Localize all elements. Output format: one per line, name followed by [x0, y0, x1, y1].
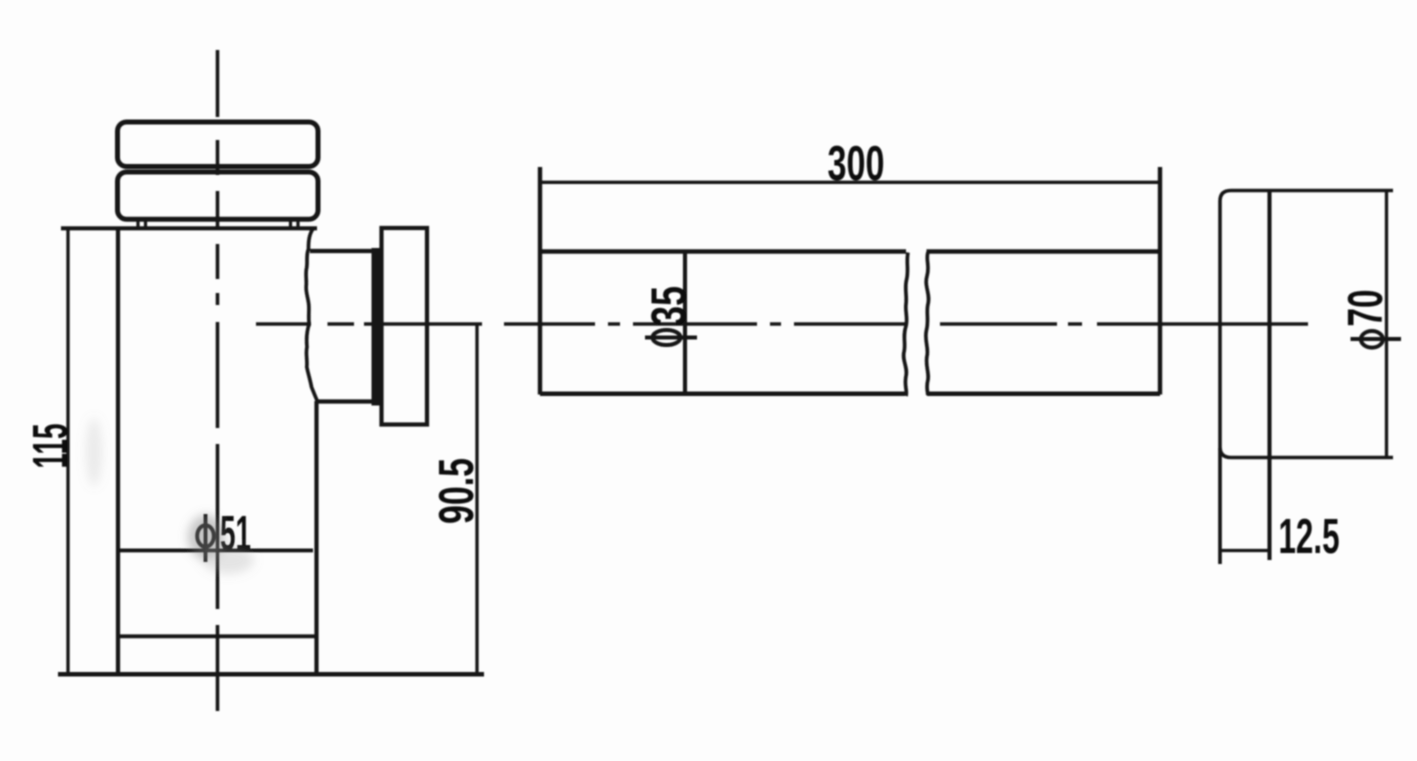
- tube joint line: [683, 252, 687, 394]
- tube right end and extension: [1158, 167, 1162, 395]
- dimension line 90.5: [475, 324, 478, 674]
- escutcheon left extension line: [1218, 448, 1222, 564]
- spout neck top edge: [310, 249, 372, 253]
- spout horizontal centerline left view: [256, 322, 482, 326]
- handle knob lower cap: [118, 172, 319, 219]
- right bonnet foot: [291, 221, 299, 228]
- escutcheon outline top bottom and rounded left edge: [1220, 191, 1393, 458]
- spout tube centerline left part: [504, 322, 906, 326]
- spout tube centerline right part: [940, 322, 1308, 326]
- svg-text:12.5: 12.5: [1279, 510, 1340, 564]
- tube bottom edge left part: [540, 391, 905, 396]
- svg-text:35: 35: [643, 286, 697, 326]
- spout neck bottom edge: [316, 399, 372, 403]
- tube left end and extension: [538, 167, 542, 395]
- seat line inside body: [118, 548, 313, 552]
- tube bottom edge right part: [927, 391, 1160, 396]
- body lower right edge: [314, 401, 318, 674]
- svg-text:70: 70: [1339, 290, 1393, 327]
- wall flange side view: [382, 228, 428, 425]
- cast transition wavy edge: [306, 228, 317, 401]
- svg-text:300: 300: [828, 137, 885, 191]
- left bonnet foot: [138, 221, 146, 228]
- svg-text:90.5: 90.5: [430, 458, 484, 524]
- tube break line left: [904, 253, 908, 397]
- body top edge with 115 extension: [61, 226, 317, 230]
- dimension line 115: [66, 228, 69, 674]
- tube break line right: [926, 252, 929, 396]
- svg-text:115: 115: [24, 424, 78, 469]
- tube top edge left part: [540, 249, 906, 254]
- vertical centerline of valve body: [216, 50, 220, 711]
- scan smudge near phi51 label: [86, 418, 254, 574]
- dimension line 12.5: [1220, 549, 1270, 552]
- body bottom edge with extensions: [58, 672, 484, 677]
- neck-flange joint bar: [372, 248, 382, 406]
- dimension line 300: [540, 181, 1160, 184]
- handle knob top cap: [118, 122, 319, 167]
- body left edge: [116, 228, 120, 674]
- dimension line phi70: [1385, 191, 1388, 458]
- tube top edge right part: [927, 249, 1161, 254]
- escutcheon face line: [1267, 191, 1271, 561]
- body step line: [118, 634, 317, 638]
